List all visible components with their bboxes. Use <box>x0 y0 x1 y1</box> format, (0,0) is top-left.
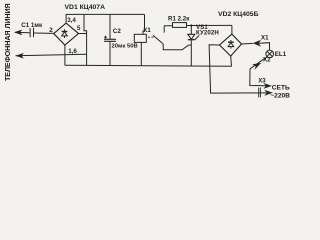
svg-text:C2: C2 <box>113 28 122 35</box>
wire R1 right lead to VD2 top <box>187 24 232 26</box>
connector X2 arrow <box>252 63 261 70</box>
wire VS1 anode <box>190 26 192 35</box>
capacitor C2 plus sign <box>104 36 107 39</box>
svg-text:X1: X1 <box>261 34 269 41</box>
relay contact K1.1 fixed stub from R1 wire <box>163 26 165 33</box>
svg-text:20мк 50В: 20мк 50В <box>112 44 138 50</box>
connector X1 arrow <box>253 40 261 47</box>
svg-text:~220В: ~220В <box>270 92 290 99</box>
wire VS1 cathode to bottom rail <box>190 40 192 66</box>
resistor R1 body <box>173 23 187 28</box>
wire C1 to bridge pin2 <box>34 32 54 34</box>
wire pin5 down to line2 and bottom rail <box>86 34 88 66</box>
svg-text:VD2 КЦ405Б: VD2 КЦ405Б <box>218 11 259 18</box>
diode symbol inside VD1 <box>62 29 68 38</box>
svg-text:3,4: 3,4 <box>67 17 76 24</box>
connector X3 lower pin arrow <box>264 90 273 96</box>
svg-text:5: 5 <box>77 25 81 32</box>
wire top rail <box>66 13 145 15</box>
relay contact K1.1 lever <box>153 35 162 43</box>
wire bridge top vertex to top rail <box>65 14 67 23</box>
svg-text:ТЕЛЕФОННАЯ ЛИНИЯ: ТЕЛЕФОННАЯ ЛИНИЯ <box>3 3 12 81</box>
connector X3 plug ticks <box>258 88 260 98</box>
wire rail down to relay coil <box>143 14 145 34</box>
svg-text:2: 2 <box>49 27 53 34</box>
lamp EL1 <box>266 50 274 58</box>
svg-text:C1 1мк: C1 1мк <box>21 22 43 29</box>
wire relay coil to bottom rail <box>140 42 142 65</box>
wire VD2 left vertex to mains <box>209 45 266 93</box>
svg-text:1,6: 1,6 <box>68 48 77 55</box>
capacitor C1 <box>29 28 31 37</box>
diode bridge VD2 diamond <box>220 34 242 56</box>
arrow line1 terminal <box>14 30 22 36</box>
wire line2 from arrow <box>16 54 87 55</box>
diode bridge VD1 diamond <box>54 23 79 45</box>
capacitor C2 wire bottom <box>109 42 111 66</box>
capacitor C2 plates <box>104 38 116 40</box>
thyristor VS1 triangle <box>188 34 195 39</box>
wire bottom rail <box>65 65 232 66</box>
junction dot R1 wire / VS1 anode <box>190 24 192 26</box>
wire jog rail down to pin5 <box>84 14 87 33</box>
thyristor VS1 cathode bar <box>188 39 195 41</box>
wire VD2 bottom vertex to bottom rail <box>230 56 233 66</box>
relay K1 coil <box>134 34 146 42</box>
wire line1 from arrow to C1 <box>15 31 30 33</box>
svg-text:КУ202Н: КУ202Н <box>196 29 219 36</box>
svg-text:R1 2.2к: R1 2.2к <box>168 16 190 23</box>
svg-text:СЕТЬ: СЕТЬ <box>272 84 290 91</box>
wire contact to gate chain <box>162 43 192 50</box>
connector X3 upper pin arrow <box>264 83 272 89</box>
thyristor VS1 gate lead <box>195 35 199 40</box>
svg-text:EL1: EL1 <box>275 51 287 58</box>
arrow line2 terminal <box>16 53 24 59</box>
svg-text:X2: X2 <box>263 57 271 64</box>
wire VD2 right vertex to X1 <box>242 42 253 45</box>
svg-text:X3: X3 <box>258 77 266 84</box>
capacitor C2 wire top <box>109 14 111 39</box>
wire X1 to lamp <box>258 43 269 51</box>
wire lamp to X2 corner <box>250 57 267 86</box>
wire VD2 top vertex up <box>231 25 233 34</box>
wire bridge bottom vertex down <box>64 45 66 65</box>
wire pin5 stub <box>79 33 87 35</box>
svg-text:VD1 КЦ407А: VD1 КЦ407А <box>65 4 106 11</box>
wire R1 left lead <box>164 25 172 27</box>
relay contact K1.1 mechanical link (dashed) <box>148 36 154 38</box>
diode symbol inside VD2 <box>228 40 234 49</box>
